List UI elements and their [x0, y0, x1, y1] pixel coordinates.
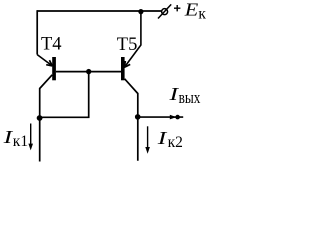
svg-text:E: E — [184, 0, 199, 19]
node rail junction — [138, 9, 143, 14]
current arrow Ik2 — [145, 126, 150, 154]
wire base T4-T5 — [56, 71, 121, 73]
wire left vertical (emitter feed T4) — [36, 10, 38, 54]
label +Ek — [174, 5, 180, 11]
transistor T5 — [121, 57, 138, 161]
terminal +Ek — [158, 4, 171, 18]
svg-text:I: I — [156, 128, 167, 148]
svg-text:Т5: Т5 — [117, 35, 138, 55]
node T5 collector — [135, 114, 141, 120]
svg-text:к: к — [198, 6, 206, 23]
current arrow Ik1 — [28, 124, 33, 151]
node output — [175, 115, 180, 120]
svg-text:Т4: Т4 — [41, 35, 62, 55]
node base junction — [86, 69, 91, 74]
wire T5 emitter from rail — [125, 11, 141, 67]
svg-text:к1: к1 — [13, 133, 28, 150]
node T4 collector — [37, 115, 43, 121]
svg-text:вых: вых — [179, 88, 201, 107]
svg-text:к2: к2 — [168, 134, 183, 151]
wire output with arrow — [138, 115, 184, 120]
wire base to collector feedback — [40, 72, 89, 118]
transistor T4 — [37, 55, 56, 162]
wire top rail — [37, 10, 161, 12]
